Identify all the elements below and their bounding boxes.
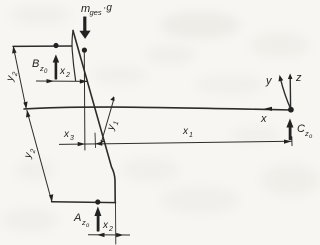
label m_ges*g: [81, 3, 112, 18]
svg-text:ges: ges: [90, 8, 102, 17]
svg-text:x: x: [63, 129, 70, 140]
main shaft axis line (x axis): [24, 107, 291, 110]
svg-text:1: 1: [189, 132, 193, 139]
dimension line x3/x1 (pedal axis datum): [59, 141, 292, 144]
top pedal line: [13, 45, 72, 47]
weight force action line: [83, 53, 86, 150]
crank arm right edge: [73, 31, 115, 203]
node dot mass centre: [82, 48, 87, 53]
label x3: [63, 129, 74, 142]
force arrow A_z0: [94, 206, 101, 231]
svg-text:B: B: [32, 58, 39, 70]
svg-text:z: z: [295, 72, 302, 84]
label y2 upper: [4, 70, 19, 83]
label x2 top: [59, 66, 70, 79]
plate right edge extension line: [115, 203, 117, 244]
force arrow m_ges*g: [79, 17, 90, 39]
y axis: [279, 75, 291, 109]
arrow x3 right-pointing at weight line: [78, 142, 86, 146]
x axis arrowhead on shaft line: [264, 107, 272, 111]
extension tick below origin C: [291, 137, 293, 146]
force arrow C_z0: [286, 118, 293, 140]
svg-text:A: A: [73, 212, 81, 224]
svg-text:2: 2: [108, 226, 113, 233]
dimension y2 lower line: [26, 110, 53, 202]
svg-text:x: x: [182, 126, 189, 137]
svg-text:x: x: [102, 220, 109, 231]
bottom pedal line: [52, 201, 116, 204]
dimension x2 top line: [36, 79, 88, 84]
svg-text:x: x: [260, 113, 267, 125]
dimension y1 slanted line: [101, 96, 115, 144]
z axis: [288, 73, 293, 108]
svg-text:x: x: [59, 66, 66, 77]
node dot A: [95, 199, 100, 204]
label B_z0: [32, 58, 48, 75]
node dot B: [53, 43, 58, 48]
label y2 lower: [22, 147, 37, 161]
arrow x1 left-pointing at A tick: [95, 142, 103, 146]
crank arm left edge: [72, 31, 76, 81]
coordinate origin dot: [288, 107, 294, 113]
label x2 bottom: [102, 220, 113, 233]
extension tick at pedal axis A line: [94, 133, 97, 148]
svg-text:·g: ·g: [103, 3, 112, 14]
label x1: [182, 126, 193, 139]
label C_z0: [297, 123, 313, 140]
dimension y2 upper line: [12, 46, 28, 109]
svg-text:2: 2: [65, 72, 70, 79]
force arrow B_z0: [53, 54, 60, 79]
svg-text:3: 3: [70, 135, 74, 142]
label y1: [105, 119, 120, 133]
svg-text:C: C: [297, 123, 305, 135]
label A_z0: [73, 212, 90, 229]
dimension x2 bottom line: [88, 233, 130, 237]
arrow x1 right end at origin tick: [284, 140, 292, 144]
